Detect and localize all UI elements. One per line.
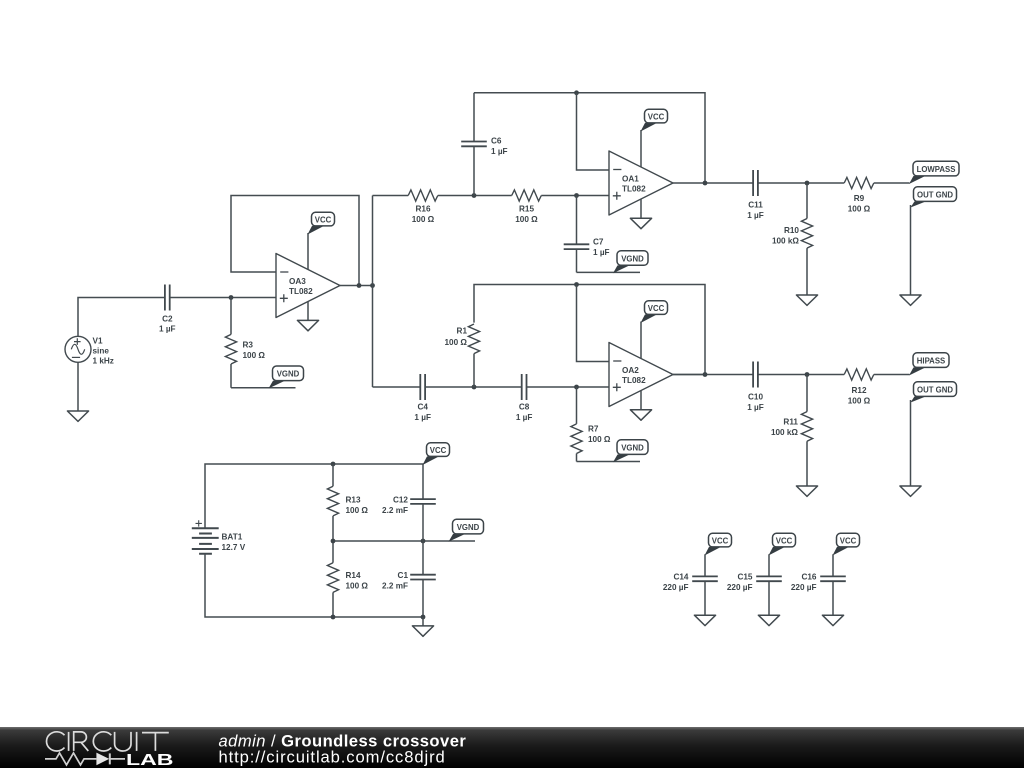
MAIN SCHEMATIC <box>65 90 959 636</box>
wire OA2 gnd stub <box>640 391 642 410</box>
svg-text:sine: sine <box>93 347 110 356</box>
ground below C16 <box>822 615 843 625</box>
svg-text:R14: R14 <box>346 571 361 580</box>
svg-text:C12: C12 <box>393 496 408 505</box>
mid VGND rail <box>333 540 475 542</box>
flag VCC (C15) <box>769 533 796 555</box>
svg-text:1 µF: 1 µF <box>747 403 764 412</box>
svg-text:100 Ω: 100 Ω <box>588 435 611 444</box>
flag VGND (C7) <box>613 251 648 274</box>
op-amp OA2 <box>609 343 673 407</box>
svg-text:C15: C15 <box>737 573 752 582</box>
svg-text:VGND: VGND <box>277 370 300 379</box>
wire OA2 output rail <box>673 374 910 376</box>
svg-text:100 Ω: 100 Ω <box>243 351 266 360</box>
flag VGND (BAT) <box>449 519 484 542</box>
resistor R3 <box>225 298 265 388</box>
ground below V1 <box>67 411 88 421</box>
svg-text:R10: R10 <box>784 226 799 235</box>
wire OA1 gnd stub <box>640 199 642 218</box>
svg-text:1 µF: 1 µF <box>593 248 610 257</box>
node mid R13/R14 <box>331 539 336 544</box>
svg-text:C7: C7 <box>593 237 604 246</box>
svg-text:100 Ω: 100 Ω <box>346 582 369 591</box>
wire V1 top <box>78 298 165 337</box>
svg-text:1 µF: 1 µF <box>414 413 431 422</box>
svg-text:BAT1: BAT1 <box>222 533 243 542</box>
node OA3 out a <box>357 283 362 288</box>
capacitor C2 <box>159 285 176 334</box>
capacitor C10 <box>747 362 764 413</box>
flag VCC (C14) <box>705 533 732 555</box>
wire OUT GND lower to ground <box>910 400 912 486</box>
capacitor C16 with leads <box>791 554 846 615</box>
wire C7 to VGND <box>577 271 641 273</box>
ground below C15 <box>758 615 779 625</box>
svg-text:C16: C16 <box>801 573 816 582</box>
node R15/OA1+/C7 <box>574 193 579 198</box>
wire OA1 output rail <box>673 182 910 184</box>
svg-text:100 Ω: 100 Ω <box>346 506 369 515</box>
svg-text:C10: C10 <box>748 393 763 402</box>
svg-text:R9: R9 <box>854 194 865 203</box>
capacitor C1 with leads <box>382 541 436 617</box>
node top R13 <box>331 462 336 467</box>
svg-text:TL082: TL082 <box>622 376 646 385</box>
capacitor C7 with leads <box>564 196 610 273</box>
node OA2 minus tap <box>574 282 579 287</box>
resistor R13 with leads <box>327 464 368 541</box>
ground below R10 <box>796 295 817 305</box>
svg-text:100 Ω: 100 Ω <box>515 215 538 224</box>
resistor R11 with leads <box>771 375 813 487</box>
svg-text:OA2: OA2 <box>622 366 639 375</box>
svg-text:100 Ω: 100 Ω <box>412 215 435 224</box>
wire R7 to VGND <box>577 461 641 463</box>
wire gnd stub BAT <box>422 617 424 626</box>
svg-text:1 µF: 1 µF <box>491 147 508 156</box>
svg-text:12.7 V: 12.7 V <box>222 543 246 552</box>
svg-text:VCC: VCC <box>840 536 857 545</box>
svg-text:1 µF: 1 µF <box>159 325 176 334</box>
node OA1 out/feedback <box>703 181 708 186</box>
op-amp OA3 <box>276 254 340 318</box>
svg-text:C11: C11 <box>748 200 763 209</box>
svg-text:1 µF: 1 µF <box>516 413 533 422</box>
capacitor C4 <box>414 374 431 422</box>
node R16/C6 <box>472 193 477 198</box>
ground below OUT GND lower <box>900 486 921 496</box>
svg-text:R7: R7 <box>588 425 599 434</box>
ground below OUT GND upper <box>900 295 921 305</box>
svg-text:220 µF: 220 µF <box>727 583 753 592</box>
capacitor C6 with leads <box>461 93 507 196</box>
wire OUT GND upper to ground <box>910 205 912 295</box>
node C8/OA2+/R7 <box>574 385 579 390</box>
capacitor C15 with leads <box>727 554 782 615</box>
svg-text:HIPASS: HIPASS <box>917 356 945 365</box>
svg-text:http://circuitlab.com/cc8djrd: http://circuitlab.com/cc8djrd <box>219 748 446 767</box>
svg-text:VCC: VCC <box>776 536 793 545</box>
op-amp OA1 <box>609 151 673 215</box>
svg-text:VCC: VCC <box>712 536 729 545</box>
battery BAT1 <box>192 520 246 554</box>
flag VGND (R3) <box>269 366 304 389</box>
resistor R12 <box>844 369 874 406</box>
svg-text:2.2 mF: 2.2 mF <box>382 582 408 591</box>
svg-text:C1: C1 <box>398 571 409 580</box>
OA1 feedback top rail <box>474 93 705 183</box>
wire OA2 VCC stub <box>640 322 642 359</box>
svg-text:OA3: OA3 <box>289 277 306 286</box>
flag OUT GND lower <box>911 382 957 403</box>
svg-text:VCC: VCC <box>648 304 665 313</box>
logo CIRCUIT wordmark <box>47 732 169 751</box>
svg-text:TL082: TL082 <box>622 185 646 194</box>
flag VCC (C16) <box>833 533 860 555</box>
OA2 feedback rail <box>474 285 705 375</box>
svg-text:V1: V1 <box>93 337 103 346</box>
svg-text:R11: R11 <box>783 418 798 427</box>
wire OA3 gnd stub <box>307 302 309 321</box>
node bottom C1/gnd <box>421 615 426 620</box>
svg-text:2.2 mF: 2.2 mF <box>382 506 408 515</box>
wire OA2 minus <box>577 285 610 362</box>
svg-text:100 Ω: 100 Ω <box>848 205 871 214</box>
capacitor C11 <box>747 170 764 220</box>
flag OUT GND upper <box>911 187 957 208</box>
node OA3 out b <box>370 283 375 288</box>
svg-text:1 kHz: 1 kHz <box>93 357 114 366</box>
logo resistor-diode glyph <box>45 753 125 765</box>
svg-text:OUT GND: OUT GND <box>917 190 953 199</box>
FOOTER <box>0 727 1024 768</box>
flag VCC (OA1) <box>641 109 668 131</box>
node bottom R14 <box>331 615 336 620</box>
svg-text:R16: R16 <box>415 205 430 214</box>
node C4/R1 <box>472 385 477 390</box>
resistor R14 with leads <box>327 541 368 617</box>
OA3 feedback wires <box>231 196 373 286</box>
flag VCC (OA3) <box>308 212 335 234</box>
svg-text:100 kΩ: 100 kΩ <box>772 237 799 246</box>
ground below C14 <box>694 615 715 625</box>
node mid C12/C1 <box>421 539 426 544</box>
ground below OA2 <box>630 410 651 420</box>
svg-text:VGND: VGND <box>621 254 644 263</box>
node C2/R3 <box>229 295 234 300</box>
resistor R1 with lead <box>445 324 480 387</box>
svg-text:C14: C14 <box>673 573 688 582</box>
wire OA1 minus <box>577 93 610 170</box>
resistor R15 <box>512 190 542 224</box>
source V1 <box>65 336 114 365</box>
svg-text:VGND: VGND <box>457 523 480 532</box>
capacitor C12 with leads <box>382 496 436 542</box>
wire rail y195 with R16 R15 <box>373 195 610 197</box>
svg-text:VCC: VCC <box>315 215 332 224</box>
svg-text:C8: C8 <box>519 403 530 412</box>
resistor R16 <box>408 190 438 224</box>
battery top rail <box>205 464 423 528</box>
ground below OA3 <box>297 320 318 330</box>
svg-text:R13: R13 <box>346 496 361 505</box>
wire OA1 VCC stub <box>640 130 642 167</box>
svg-text:R1: R1 <box>457 327 468 336</box>
svg-text:OA1: OA1 <box>622 175 639 184</box>
resistor R9 <box>844 177 874 213</box>
svg-text:220 µF: 220 µF <box>663 583 689 592</box>
flag VGND (R7) <box>613 440 648 463</box>
svg-text:VGND: VGND <box>621 443 644 452</box>
wire vertical trunk x372 <box>372 196 374 388</box>
svg-text:R3: R3 <box>243 341 254 350</box>
capacitor C14 with leads <box>663 554 718 615</box>
svg-text:R12: R12 <box>851 386 866 395</box>
wire C2 to OA3 plus <box>170 297 276 299</box>
flag VCC (OA2) <box>641 301 668 323</box>
svg-text:OUT GND: OUT GND <box>917 385 953 394</box>
svg-text:VCC: VCC <box>430 446 447 455</box>
ground below battery rail <box>412 626 433 636</box>
svg-text:1 µF: 1 µF <box>747 211 764 220</box>
svg-text:220 µF: 220 µF <box>791 583 817 592</box>
svg-text:VCC: VCC <box>648 112 665 121</box>
wire V1 bottom <box>77 362 79 411</box>
svg-text:C2: C2 <box>162 314 173 323</box>
svg-text:LAB: LAB <box>126 752 174 768</box>
svg-text:C4: C4 <box>417 403 428 412</box>
svg-text:R15: R15 <box>519 205 534 214</box>
node C10/R11/R12 <box>805 372 810 377</box>
flag VCC (BAT) <box>423 443 450 465</box>
ground below R11 <box>796 486 817 496</box>
battery bottom wire <box>205 554 423 617</box>
ground below OA1 <box>630 218 651 228</box>
node C11/R10/R9 <box>805 181 810 186</box>
svg-text:100 kΩ: 100 kΩ <box>771 428 798 437</box>
resistor R7 with leads <box>571 387 611 462</box>
svg-text:100 Ω: 100 Ω <box>848 397 871 406</box>
svg-text:C6: C6 <box>491 136 502 145</box>
svg-text:TL082: TL082 <box>289 287 313 296</box>
wire rail y387 with C4 C8 <box>373 386 610 388</box>
resistor R10 with leads <box>772 183 813 295</box>
wire OA3 VCC stub <box>307 233 309 270</box>
svg-text:100 Ω: 100 Ω <box>445 338 468 347</box>
flag LOWPASS <box>909 161 959 184</box>
flag HIPASS <box>909 353 949 376</box>
node OA2 out/feedback <box>703 372 708 377</box>
node minus tap <box>574 90 579 95</box>
capacitor C8 <box>516 374 533 422</box>
svg-text:LOWPASS: LOWPASS <box>917 165 956 174</box>
wire R3 to VGND <box>231 387 296 389</box>
